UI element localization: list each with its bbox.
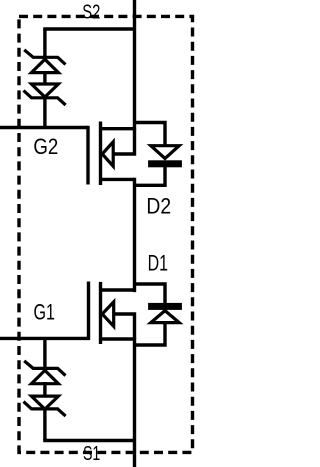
wire Q1 body to source: [114, 314, 135, 339]
transistor Q1 source tap: [101, 337, 135, 340]
wire Q2 body to drain: [113, 129, 134, 154]
transistor Q1 channel bar: [99, 282, 102, 344]
wire ZB2 to S1: [43, 407, 46, 441]
svg-text:S2: S2: [82, 2, 100, 24]
transistor Q1 body arrow: [102, 302, 114, 326]
svg-text:S1: S1: [83, 443, 100, 465]
wire D2 anode branch: [135, 123, 166, 146]
wire D1 cathode branch: [135, 284, 166, 303]
diode D2 triangle: [151, 146, 179, 159]
wire D2 cathode branch: [135, 167, 166, 185]
wire G2 horizontal: [0, 126, 88, 129]
zener ZB2 (gate protection, cathode down): [24, 396, 66, 416]
zener ZT2 (gate protection, cathode down): [24, 84, 66, 105]
diode D2 cathode bar: [148, 160, 182, 167]
svg-text:D2: D2: [146, 194, 171, 219]
wire S1 horizontal: [43, 439, 134, 442]
dashed package outline border: [19, 16, 193, 452]
wire G1 horizontal: [0, 337, 89, 340]
wire ZT1 to ZT2: [43, 71, 46, 85]
transistor Q1 drain tap: [101, 288, 135, 291]
wire G1 node to zener ZB1: [43, 338, 46, 369]
wire D1 anode branch: [135, 322, 166, 345]
wire S2 to zener ZT1: [43, 29, 46, 58]
wire S2 horizontal: [43, 27, 134, 30]
diode D1 cathode bar: [148, 303, 182, 310]
diode D1 triangle: [151, 311, 179, 323]
node S1 terminal lead (bottom trunk): [133, 337, 136, 467]
node S2 terminal lead (top trunk): [133, 0, 136, 130]
transistor Q2 channel bar: [99, 122, 102, 186]
svg-text:D1: D1: [148, 250, 168, 275]
svg-text:G2: G2: [33, 134, 58, 159]
wire midpoint trunk (Q2 source to Q1 drain): [133, 178, 136, 292]
transistor Q2 gate bar: [86, 126, 89, 185]
transistor Q2 body arrow: [102, 142, 113, 166]
transistor Q1 gate bar: [87, 282, 90, 341]
transistor Q2 source tap: [101, 178, 135, 181]
svg-text:G1: G1: [34, 300, 55, 325]
wire ZB1 to ZB2: [43, 382, 46, 396]
wire ZT2 to G2 node: [43, 96, 46, 129]
transistor Q2 drain tap: [101, 127, 135, 130]
zener ZT1 (gate protection, cathode up): [24, 50, 65, 73]
zener ZB1 (gate protection, cathode up): [24, 361, 65, 384]
